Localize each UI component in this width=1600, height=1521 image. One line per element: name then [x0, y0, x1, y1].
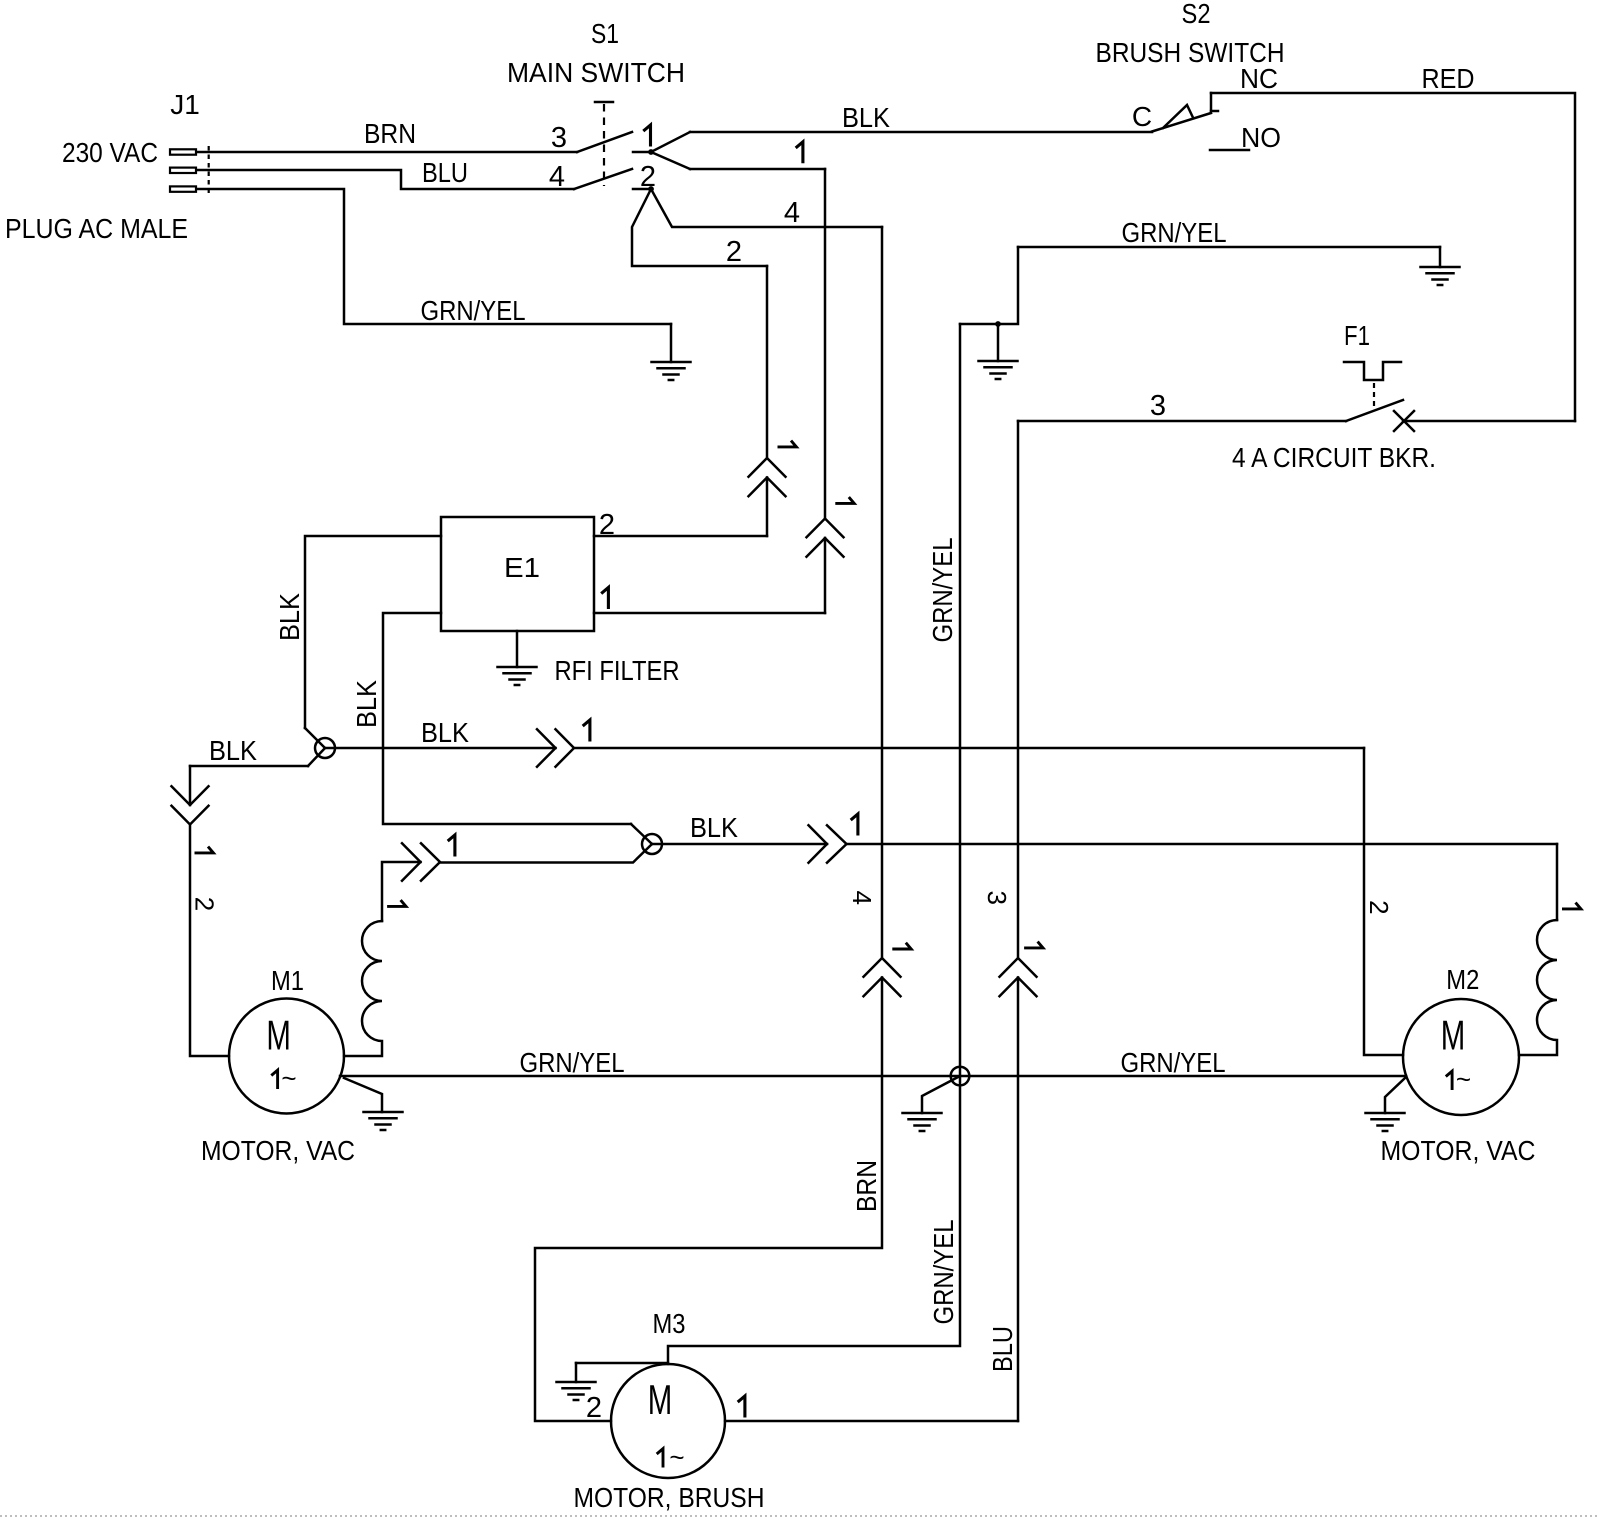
svg-text:M2: M2: [1446, 964, 1479, 995]
svg-text:MAIN SWITCH: MAIN SWITCH: [507, 57, 685, 88]
svg-text:GRN/YEL: GRN/YEL: [927, 538, 958, 643]
svg-text:M: M: [266, 1011, 291, 1058]
svg-text:2: 2: [640, 161, 656, 193]
svg-text:2: 2: [1364, 900, 1394, 914]
svg-text:BLU: BLU: [422, 157, 468, 188]
svg-text:MOTOR, VAC: MOTOR, VAC: [201, 1135, 355, 1166]
svg-text:PLUG AC MALE: PLUG AC MALE: [5, 213, 188, 244]
svg-text:BLK: BLK: [351, 680, 382, 728]
svg-text:3: 3: [1150, 390, 1166, 422]
svg-text:~: ~: [281, 1063, 296, 1093]
svg-text:~: ~: [1456, 1064, 1471, 1094]
svg-text:4: 4: [549, 161, 565, 193]
svg-text:NC: NC: [1240, 63, 1278, 94]
svg-text:M3: M3: [653, 1308, 686, 1339]
svg-text:3: 3: [551, 122, 567, 154]
svg-text:GRN/YEL: GRN/YEL: [520, 1047, 625, 1078]
svg-text:E1: E1: [504, 552, 540, 583]
svg-text:S2: S2: [1182, 0, 1211, 29]
svg-text:J1: J1: [170, 89, 200, 120]
svg-text:4: 4: [847, 890, 877, 904]
svg-text:GRN/YEL: GRN/YEL: [1122, 217, 1227, 248]
svg-text:M: M: [1441, 1012, 1466, 1059]
svg-text:BLK: BLK: [842, 102, 890, 133]
svg-text:MOTOR, BRUSH: MOTOR, BRUSH: [574, 1482, 765, 1513]
svg-text:2: 2: [726, 236, 742, 268]
svg-text:RFI FILTER: RFI FILTER: [555, 655, 680, 686]
svg-text:S1: S1: [591, 18, 619, 49]
svg-text:M: M: [648, 1376, 673, 1423]
svg-text:RED: RED: [1422, 63, 1475, 94]
svg-text:GRN/YEL: GRN/YEL: [1121, 1047, 1226, 1078]
svg-text:~: ~: [669, 1442, 684, 1472]
svg-text:BRN: BRN: [364, 118, 416, 149]
svg-text:BLK: BLK: [421, 717, 469, 748]
svg-text:3: 3: [982, 890, 1012, 904]
svg-text:230 VAC: 230 VAC: [62, 137, 158, 168]
svg-text:BRN: BRN: [851, 1160, 882, 1212]
svg-text:4: 4: [784, 197, 800, 229]
svg-text:2: 2: [599, 509, 615, 541]
svg-text:C: C: [1132, 101, 1152, 132]
svg-text:2: 2: [586, 1392, 602, 1424]
svg-text:NO: NO: [1241, 122, 1281, 153]
svg-text:BLK: BLK: [209, 735, 257, 766]
svg-text:F1: F1: [1344, 320, 1370, 351]
svg-text:GRN/YEL: GRN/YEL: [421, 295, 526, 326]
svg-text:MOTOR, VAC: MOTOR, VAC: [1381, 1135, 1536, 1166]
svg-text:BLK: BLK: [274, 593, 305, 641]
svg-text:BLU: BLU: [987, 1326, 1018, 1372]
svg-text:M1: M1: [271, 965, 304, 996]
svg-text:GRN/YEL: GRN/YEL: [928, 1220, 959, 1325]
svg-text:2: 2: [189, 897, 219, 911]
svg-text:BLK: BLK: [690, 812, 738, 843]
svg-text:4 A CIRCUIT BKR.: 4 A CIRCUIT BKR.: [1232, 442, 1436, 473]
